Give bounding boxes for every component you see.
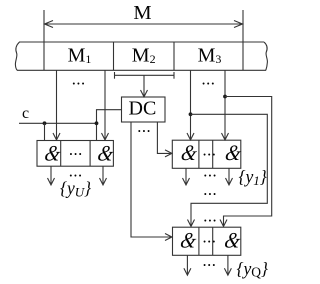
svg-text:{y1}: {y1}	[239, 167, 267, 188]
wire c	[19, 122, 97, 124]
svg-text:M: M	[133, 2, 151, 24]
feedback wire 2	[220, 97, 272, 227]
wire DC output to AND row 1	[157, 122, 172, 157]
extension line left	[43, 10, 45, 70]
svg-text:...: ...	[203, 141, 217, 160]
wire DC enable to left AND row	[97, 110, 122, 141]
AND row Q (bottom)	[173, 227, 244, 255]
wire M1 output 2	[102, 70, 109, 140]
node c/DC junction	[95, 121, 99, 125]
output yQ arrow 1	[184, 255, 191, 275]
bracket under M2	[115, 72, 175, 79]
svg-text:...: ...	[203, 206, 217, 225]
node on M3 output 2	[223, 95, 227, 99]
svg-text:...: ...	[203, 161, 217, 180]
svg-text:...: ...	[203, 251, 217, 270]
output y1 arrow 1	[183, 168, 190, 185]
wire c branch down	[44, 123, 46, 140]
node on M3 output 1	[189, 112, 193, 116]
feedback wire 1	[188, 114, 268, 226]
svg-text:c: c	[22, 105, 29, 122]
AND row U (left)	[37, 140, 116, 166]
extension line right	[242, 10, 244, 70]
wire M1 output 1	[53, 70, 60, 140]
output y1 arrow 2	[226, 168, 233, 185]
svg-text:...: ...	[203, 228, 217, 247]
wire M2 to DC	[141, 75, 148, 97]
svg-text:...: ...	[72, 70, 86, 89]
AND row 1 (right middle)	[172, 140, 244, 168]
memory band	[15, 42, 267, 70]
wire M3 output 1	[187, 70, 194, 140]
svg-text:...: ...	[137, 117, 151, 136]
output yU arrow 2	[100, 166, 107, 185]
output yU arrow 1	[48, 166, 55, 185]
wire DC output to AND row Q	[131, 122, 172, 241]
divider M1/M2	[113, 42, 115, 70]
svg-text:...: ...	[203, 180, 217, 199]
divider M2/M3	[173, 42, 175, 70]
svg-text:...: ...	[202, 70, 216, 89]
dimension arrow M	[44, 21, 243, 28]
wire M3 output 2	[222, 70, 229, 140]
output yQ arrow 2	[224, 255, 231, 275]
svg-text:...: ...	[69, 140, 83, 159]
node on c wire	[43, 121, 47, 125]
DC box U1	[122, 97, 166, 122]
